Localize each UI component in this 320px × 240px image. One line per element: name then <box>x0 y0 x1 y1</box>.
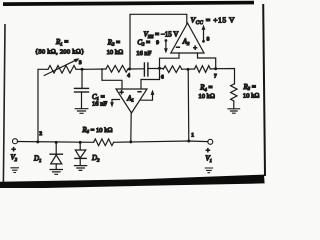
wire from R3/R4 node down to node 1 <box>187 69 190 141</box>
VEE power arrow on A2 <box>165 41 167 49</box>
A2 inverting input wire to node 6 <box>141 53 179 89</box>
svg-text:R1 =: R1 = <box>55 38 68 46</box>
VCC power arrow on A2 <box>203 30 205 42</box>
VEE power arrow on A1 <box>112 100 120 103</box>
feedback wire node4 up over to A2 output <box>130 14 187 68</box>
resistor R4 zigzag <box>195 66 211 73</box>
arrowhead of R1 arrow <box>74 58 80 62</box>
svg-text:10 kΩ: 10 kΩ <box>198 93 215 100</box>
diode D2 cathode bar <box>75 157 86 159</box>
junction at A1 + tap <box>101 68 103 70</box>
diode D1 cathode bar <box>50 153 62 155</box>
terminal circle V2 <box>13 139 18 144</box>
terminal circle V1 <box>208 139 213 144</box>
svg-text:+: + <box>193 45 197 52</box>
diode D1 wire top <box>55 142 57 153</box>
svg-text:+: + <box>206 146 210 155</box>
svg-text:16 nF: 16 nF <box>92 101 108 108</box>
svg-text:C2 =: C2 = <box>137 38 150 46</box>
op-amp A1 triangle (points down) <box>116 89 147 113</box>
node 2 <box>36 140 39 143</box>
svg-text:+: + <box>12 145 16 154</box>
diode D2 junction <box>79 141 82 144</box>
scan border: left line <box>3 24 5 182</box>
ground (V2) <box>11 168 18 173</box>
svg-text:16 nF: 16 nF <box>136 50 152 57</box>
diode D1 triangle (points up) <box>51 155 62 164</box>
ground (R5) <box>228 109 240 113</box>
svg-text:8: 8 <box>207 36 210 42</box>
wire R1 to node 3 <box>76 68 84 70</box>
op-amp A2 triangle (points up) <box>171 23 204 53</box>
capacitor C1 wire from node 3 <box>81 69 83 88</box>
svg-text:3: 3 <box>79 60 82 66</box>
svg-text:R2 =: R2 = <box>107 38 120 46</box>
diode D2 wire top <box>79 142 81 150</box>
wire R4 to node 7 <box>210 68 215 70</box>
diode D2 triangle (points down) <box>75 150 86 158</box>
node 3 <box>81 68 84 71</box>
wire C2 to node 6 <box>148 68 163 70</box>
resistor R6 zigzag on bottom wire <box>94 139 114 146</box>
A2 non-inverting input wire to node 7 <box>198 53 216 69</box>
scan border: bottom band <box>0 175 265 189</box>
wire A1 + input from main wire <box>102 69 122 89</box>
svg-text:{50 kΩ, 200 kΩ}: {50 kΩ, 200 kΩ} <box>35 48 84 55</box>
svg-text:R4 =: R4 = <box>199 84 212 92</box>
wire R5 to ground <box>233 101 235 109</box>
scan border: right line <box>263 4 265 176</box>
node between R3 and R4 <box>187 68 190 71</box>
wire node7 to R5 top <box>216 69 235 85</box>
svg-text:6: 6 <box>161 75 164 81</box>
diode D1 junction <box>55 141 58 144</box>
svg-text:+: + <box>120 89 124 96</box>
resistor R3 zigzag <box>163 66 181 73</box>
junction A1 output at bottom wire <box>129 140 132 143</box>
svg-text:4: 4 <box>127 73 130 79</box>
capacitor C2 plates <box>143 63 145 76</box>
ground (C1) <box>75 109 88 114</box>
capacitor C1 plates <box>75 87 89 89</box>
diode D1 wire bottom <box>55 164 57 169</box>
svg-text:1: 1 <box>191 133 194 139</box>
svg-text:−: − <box>138 89 142 96</box>
diode D2 wire bottom <box>79 158 81 165</box>
node 4 <box>128 68 131 71</box>
node 1 <box>187 140 190 143</box>
scan border: top band <box>3 1 254 6</box>
node 6 <box>158 67 161 70</box>
bottom wire V2 to node1 <box>18 141 94 144</box>
svg-text:R5 =: R5 = <box>243 83 256 91</box>
resistor R1 (variable) zigzag <box>48 66 76 74</box>
wire node3 to R2 <box>84 68 106 70</box>
wire R3 to R4 <box>182 68 195 70</box>
resistor R5 vertical zigzag <box>231 84 237 101</box>
VCC power arrow on A1 <box>141 95 153 101</box>
arrow through R1 (variable symbol) <box>44 60 76 76</box>
svg-text:10 kΩ: 10 kΩ <box>107 49 124 56</box>
ground (D2) <box>74 166 86 171</box>
svg-text:−: − <box>176 44 180 51</box>
ground (D1) <box>50 170 62 175</box>
svg-text:7: 7 <box>214 73 217 79</box>
wire R6 to node 1 <box>114 141 189 142</box>
wire node 1 to V1 terminal <box>189 140 208 143</box>
svg-text:2: 2 <box>39 131 42 137</box>
svg-text:R6 = 10 kΩ: R6 = 10 kΩ <box>81 126 112 134</box>
resistor R2 zigzag <box>106 66 128 73</box>
C1 wire to ground <box>81 92 83 109</box>
wire left loop: node2 up to R1 <box>38 69 48 142</box>
ground (V1) <box>205 168 212 173</box>
svg-text:10 kΩ: 10 kΩ <box>243 93 260 100</box>
svg-text:9: 9 <box>156 40 159 46</box>
node 7 <box>214 67 217 70</box>
A1 output wire down <box>130 113 132 142</box>
wire node4 to C2 <box>130 68 145 70</box>
